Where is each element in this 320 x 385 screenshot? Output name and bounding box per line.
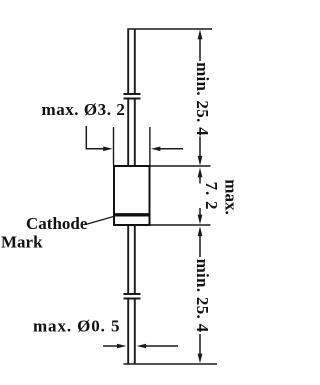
right arrow of dia 3.2 dimension bbox=[151, 147, 183, 152]
svg-text:Mark: Mark bbox=[1, 233, 43, 252]
label max 7.2 (rotated, line 1 max.) bbox=[222, 179, 241, 214]
svg-text:Cathode: Cathode bbox=[26, 214, 88, 233]
top extension line at lead end bbox=[127, 28, 212, 30]
cathode band mark bbox=[113, 213, 150, 216]
leader line from max dia 3.2 label with arrow bbox=[86, 126, 112, 151]
label min 25.4 (bottom, rotated) bbox=[193, 259, 212, 333]
extension line body bottom right bbox=[150, 224, 211, 226]
lead break mark (top) bbox=[124, 94, 141, 99]
svg-text:max.: max. bbox=[222, 179, 241, 214]
label max dia 3.2 bbox=[42, 100, 126, 119]
dimension min 25.4 (top): line and arrows bbox=[198, 30, 203, 166]
left arrow of dia 0.5 dimension bbox=[103, 344, 126, 349]
diode body outline bbox=[114, 166, 150, 225]
label max 7.2 (rotated, line 2 value) bbox=[202, 182, 221, 211]
wire lead upper segment (two parallel lines) bbox=[128, 29, 135, 165]
label min 25.4 (top, rotated) bbox=[193, 62, 212, 136]
extension line above body right corner bbox=[149, 127, 151, 165]
svg-text:min. 25. 4: min. 25. 4 bbox=[193, 259, 212, 333]
svg-text:max. Ø3. 2: max. Ø3. 2 bbox=[42, 100, 126, 119]
lead break mark (bottom) bbox=[124, 294, 141, 299]
label max dia 0.5 bbox=[33, 317, 120, 336]
right arrow of dia 0.5 dimension bbox=[137, 344, 178, 349]
svg-text:max. Ø0. 5: max. Ø0. 5 bbox=[33, 317, 120, 336]
extension line body top right bbox=[150, 165, 211, 167]
dimension min 25.4 (bottom): line and arrows bbox=[198, 226, 203, 363]
svg-text:min. 25. 4: min. 25. 4 bbox=[193, 62, 212, 136]
label Cathode bbox=[26, 214, 88, 233]
extension line above body left corner bbox=[113, 127, 115, 165]
leader line from Cathode Mark label bbox=[86, 217, 114, 225]
bottom extension line at lead end bbox=[124, 363, 218, 365]
svg-text:7. 2: 7. 2 bbox=[202, 182, 221, 211]
dimension max 7.2: arrows bbox=[198, 168, 203, 225]
wire lead lower segment (two parallel lines) bbox=[128, 226, 135, 364]
label Mark bbox=[1, 233, 43, 252]
